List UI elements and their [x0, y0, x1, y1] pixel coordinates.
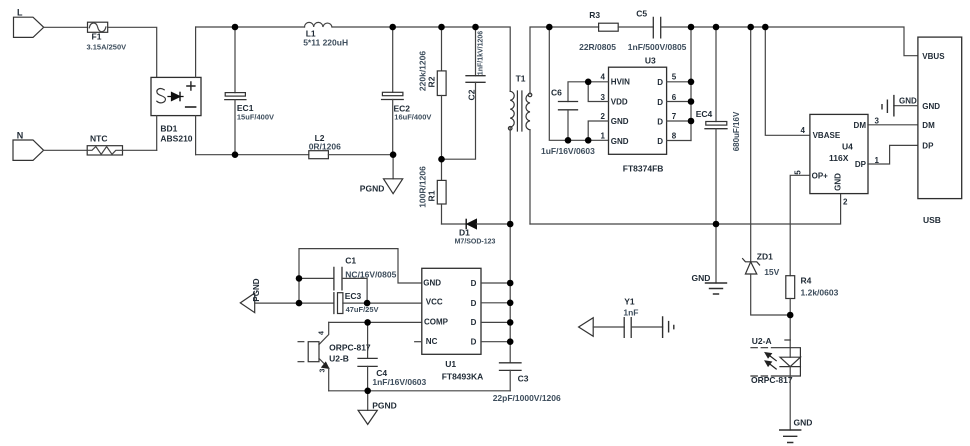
svg-text:ZD1: ZD1	[757, 252, 773, 262]
svg-text:ABS210: ABS210	[160, 134, 192, 144]
svg-text:PGND: PGND	[252, 278, 261, 301]
node HVIN	[585, 79, 592, 86]
svg-text:D1: D1	[459, 228, 470, 238]
node EC3 right	[364, 300, 371, 307]
svg-text:5: 5	[794, 170, 803, 175]
wire U3 VDD pin up to HVIN node	[588, 82, 608, 102]
svg-text:PGND: PGND	[360, 184, 385, 194]
svg-text:DM: DM	[922, 121, 935, 130]
node EC4 top	[713, 24, 720, 31]
wire U4 DM to USB	[868, 124, 918, 126]
svg-text:1nF: 1nF	[623, 308, 638, 318]
svg-text:GND: GND	[692, 273, 711, 283]
svg-text:4: 4	[801, 126, 806, 135]
bottom PGND rail	[329, 390, 511, 392]
svg-text:COMP: COMP	[424, 317, 449, 326]
svg-text:D: D	[471, 299, 477, 308]
capacitor C3	[493, 363, 561, 403]
svg-text:3: 3	[601, 93, 606, 102]
wire U3 GND pin2 down to GND line	[588, 121, 608, 140]
fuse F1	[87, 22, 127, 51]
svg-text:VBUS: VBUS	[922, 52, 945, 61]
svg-text:22pF/1000V/1206: 22pF/1000V/1206	[493, 393, 561, 403]
svg-text:U2-B: U2-B	[329, 354, 349, 364]
svg-text:DP: DP	[922, 142, 934, 151]
power ground PGND bottom	[358, 391, 397, 425]
capacitor EC4	[696, 27, 741, 283]
resistor R4	[786, 276, 839, 316]
svg-text:C1: C1	[345, 256, 356, 266]
node D bus pin7	[688, 118, 695, 125]
svg-text:FT8493KA: FT8493KA	[442, 372, 484, 382]
wire U1 GND net	[299, 249, 422, 304]
wire F1 to BD1	[108, 27, 157, 77]
svg-text:VBASE: VBASE	[813, 131, 841, 140]
svg-text:T1: T1	[516, 74, 526, 84]
svg-text:6: 6	[672, 93, 677, 102]
svg-text:NC: NC	[426, 337, 438, 346]
optocoupler transistor U2-B	[298, 322, 371, 390]
svg-text:1nF/500V/0805: 1nF/500V/0805	[628, 42, 687, 52]
node U1 D1 bus	[507, 280, 514, 287]
svg-text:2: 2	[601, 112, 606, 121]
capacitor C4	[358, 322, 427, 390]
wire U3 HVIN pin to C6 top	[568, 82, 609, 102]
wire node A down to U3 GND line	[549, 27, 608, 140]
svg-text:D: D	[657, 78, 663, 87]
svg-text:D: D	[657, 137, 663, 146]
wire U1 D pin to bus 1	[481, 282, 510, 284]
wire U1 D pin to bus 4	[481, 341, 510, 343]
wire U4 DP to USB	[868, 145, 918, 164]
resistor R3	[579, 10, 618, 52]
svg-text:BD1: BD1	[160, 124, 177, 134]
inductor L2	[309, 133, 341, 159]
ground GND mid	[692, 273, 727, 294]
svg-text:4: 4	[319, 331, 326, 335]
svg-text:C3: C3	[518, 374, 529, 384]
node R2 top	[438, 24, 445, 31]
svg-text:EC4: EC4	[696, 109, 713, 119]
svg-text:ORPC-817: ORPC-817	[329, 343, 371, 353]
zener diode ZD1	[743, 27, 791, 315]
node U1 D2 bus	[507, 300, 514, 307]
svg-text:5: 5	[672, 73, 677, 82]
power ground PGND under EC2	[360, 155, 403, 194]
inductor L1	[303, 22, 348, 47]
bridge rectifier BD1	[151, 77, 201, 143]
svg-text:F1: F1	[92, 32, 102, 42]
svg-text:2: 2	[843, 198, 848, 207]
resistor R1	[418, 159, 447, 224]
svg-text:0R/1206: 0R/1206	[309, 142, 341, 152]
svg-text:3: 3	[320, 368, 327, 372]
svg-text:GND: GND	[794, 418, 813, 428]
svg-text:D: D	[657, 98, 663, 107]
svg-text:5*11 220uH: 5*11 220uH	[303, 38, 348, 48]
node GND rail EC4	[713, 221, 720, 228]
secondary ground rail to U4 GND pin	[530, 194, 841, 224]
capacitor C1	[299, 256, 397, 304]
wire N to NTC	[44, 149, 88, 151]
node C4 top	[364, 319, 371, 326]
node C2 top	[472, 24, 479, 31]
optocoupler LED U2-A	[751, 315, 800, 385]
wire U1 D pin to bus 2	[481, 302, 510, 304]
IC U1 FT8493KA	[422, 268, 483, 381]
wire rail to VBASE of U4	[765, 27, 809, 135]
wire T1 secondary bottom to secondary ground rail	[529, 130, 531, 224]
node VBASE top	[762, 24, 769, 31]
wire T1 primary bottom to primary bus	[509, 127, 511, 363]
port L	[14, 8, 44, 38]
wire COMP line	[329, 321, 422, 323]
ground GND bottom right	[780, 418, 813, 443]
node C1 left	[296, 275, 303, 282]
svg-text:DP: DP	[855, 160, 867, 169]
svg-text:16uF/400V: 16uF/400V	[394, 113, 431, 122]
node ZD1 R4	[787, 312, 794, 319]
svg-text:U3: U3	[645, 56, 656, 66]
svg-text:116X: 116X	[829, 153, 849, 163]
wire L to F1	[44, 26, 88, 28]
diode D1	[442, 219, 511, 245]
svg-text:GND: GND	[922, 102, 940, 111]
node EC2 bottom	[390, 151, 397, 158]
svg-text:D: D	[471, 318, 477, 327]
svg-text:DM: DM	[854, 121, 867, 130]
wire U3 D pin7 to D bus	[667, 120, 691, 122]
svg-text:C5: C5	[636, 9, 647, 19]
wire U4 OP+ pin to R4 top	[790, 175, 809, 275]
svg-text:EC1: EC1	[237, 103, 254, 113]
svg-text:R2: R2	[427, 76, 437, 87]
node EC1 top	[232, 24, 239, 31]
IC U3 FT8374FB	[609, 56, 667, 174]
DC bus top rail	[196, 27, 511, 91]
capacitor C6	[541, 88, 595, 157]
svg-text:L: L	[17, 8, 23, 18]
thermistor NTC	[87, 134, 122, 156]
svg-text:1nF/1kV/1206: 1nF/1kV/1206	[478, 31, 485, 75]
port N	[13, 131, 44, 161]
transformer T1	[508, 74, 531, 132]
svg-text:47uF/25V: 47uF/25V	[346, 305, 379, 314]
capacitor EC3	[255, 291, 422, 314]
wire U3 D pin6 to D bus	[667, 101, 691, 103]
wire U1 D pin to bus 3	[481, 321, 510, 323]
svg-text:OP+: OP+	[812, 172, 829, 181]
svg-text:Y1: Y1	[624, 297, 635, 307]
node C6 bottom	[565, 137, 572, 144]
wire NTC to BD1	[123, 149, 157, 151]
svg-text:7: 7	[672, 112, 677, 121]
svg-text:1.2k/0603: 1.2k/0603	[801, 288, 839, 298]
svg-text:4: 4	[601, 73, 606, 82]
NC stub U1	[415, 341, 422, 343]
svg-text:15uF/400V: 15uF/400V	[237, 113, 274, 122]
node C4 bottom	[364, 388, 371, 395]
svg-text:3: 3	[875, 117, 880, 126]
svg-text:3.15A/250V: 3.15A/250V	[87, 43, 127, 52]
svg-text:GND: GND	[423, 279, 441, 288]
svg-text:22R/0805: 22R/0805	[579, 42, 616, 52]
svg-text:R4: R4	[801, 276, 812, 286]
svg-text:EC3: EC3	[345, 291, 362, 301]
svg-text:GND: GND	[611, 117, 629, 126]
wire R3 to C5	[618, 26, 653, 28]
svg-text:D: D	[471, 279, 477, 288]
svg-text:8: 8	[672, 132, 677, 141]
node ZD1 top	[747, 24, 754, 31]
node EC3 left	[296, 300, 303, 307]
svg-text:USB: USB	[923, 215, 941, 225]
svg-text:GND: GND	[833, 173, 842, 191]
svg-text:1: 1	[601, 132, 606, 141]
svg-text:1uF/16V/0603: 1uF/16V/0603	[541, 146, 595, 156]
secondary output rail C5 to USB VBUS	[661, 27, 918, 56]
svg-text:NTC: NTC	[90, 134, 107, 144]
node U1 D4 bus	[507, 338, 514, 345]
svg-text:C6: C6	[551, 88, 562, 98]
svg-text:680uF/16V: 680uF/16V	[732, 111, 741, 151]
svg-text:GND: GND	[899, 97, 917, 106]
svg-text:U4: U4	[842, 142, 853, 152]
node D bus top	[688, 24, 695, 31]
svg-text:R1: R1	[427, 190, 437, 201]
node D bus pin6	[688, 98, 695, 105]
negative rail from BD1 to L2	[196, 154, 309, 156]
capacitor C5	[628, 9, 687, 53]
wire U3 D pin5 to D bus	[667, 81, 691, 83]
svg-text:15V: 15V	[764, 267, 779, 277]
svg-text:1nF/16V/0603: 1nF/16V/0603	[372, 377, 426, 387]
node U1 D3 bus	[507, 319, 514, 326]
node EC2 top	[389, 24, 396, 31]
svg-text:GND: GND	[611, 137, 629, 146]
svg-text:D: D	[657, 117, 663, 126]
capacitor EC1	[225, 27, 274, 155]
D bus vertical	[690, 27, 692, 141]
svg-text:D: D	[471, 337, 477, 346]
wire T1 secondary top to node A	[530, 27, 549, 94]
svg-text:FT8374FB: FT8374FB	[623, 164, 664, 174]
wire BD1 minus output down to negative rail	[195, 116, 197, 155]
wire BD1 AC2 down to N line	[156, 116, 158, 151]
resistor R2	[418, 27, 447, 159]
svg-text:N: N	[17, 131, 24, 141]
svg-text:U1: U1	[445, 359, 456, 369]
capacitor C2	[442, 27, 486, 159]
svg-text:M7/SOD-123: M7/SOD-123	[455, 239, 496, 246]
node D bus pin5	[688, 79, 695, 86]
svg-text:HVIN: HVIN	[611, 78, 630, 87]
node R1 top	[438, 156, 445, 163]
wire BD1 plus output up to DC bus	[195, 27, 197, 77]
power ground PGND port left	[240, 278, 261, 312]
svg-text:NC/16V/0805: NC/16V/0805	[345, 270, 396, 280]
svg-text:VDD: VDD	[611, 98, 628, 107]
IC U4 116X	[810, 114, 868, 193]
svg-text:PGND: PGND	[372, 401, 397, 411]
wire node A to R3	[549, 26, 598, 28]
node EC1 bottom	[232, 151, 239, 158]
wire U3 D pin8 to D bus	[667, 140, 691, 142]
node U3 GND2	[585, 137, 592, 144]
capacitor EC2	[382, 27, 432, 155]
svg-text:VCC: VCC	[426, 298, 443, 307]
capacitor Y1 with ports	[579, 297, 674, 338]
ground port at USB GND pin	[882, 96, 918, 116]
node D1 to primary bus	[507, 221, 514, 228]
svg-text:C2: C2	[467, 89, 477, 100]
node A secondary top	[546, 24, 553, 31]
wire U2-A cathode to ground	[789, 367, 791, 430]
svg-text:R3: R3	[589, 10, 600, 20]
svg-text:U2-A: U2-A	[752, 336, 772, 346]
svg-text:ORPC-817: ORPC-817	[751, 375, 793, 385]
connector USB	[918, 37, 962, 225]
negative rail from L2 to EC2	[328, 154, 393, 156]
